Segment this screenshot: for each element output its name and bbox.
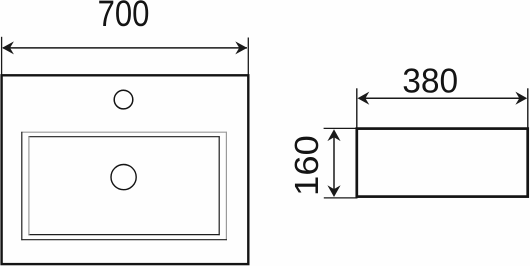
basin side profile rectangle xyxy=(357,129,528,197)
extension line left xyxy=(1,37,3,75)
extension line right xyxy=(247,38,249,76)
dimension text 160 (rotated) xyxy=(295,137,319,194)
dimension text 700 xyxy=(99,0,148,26)
arrowhead 700 right xyxy=(235,41,247,54)
drain hole xyxy=(111,165,136,190)
extension line 380 right xyxy=(527,88,529,128)
faucet hole xyxy=(114,90,133,109)
basin outer outline (top view) xyxy=(2,75,249,264)
arrowhead 160 bottom xyxy=(327,185,340,197)
dimension line 380 xyxy=(359,97,526,99)
arrowhead 380 right xyxy=(515,92,527,105)
dimension text 380 xyxy=(404,68,457,92)
basin rim inner rectangle xyxy=(28,136,219,235)
extension line 160 bottom xyxy=(324,197,358,199)
arrowhead 700 left xyxy=(2,41,14,54)
arrowhead 380 left xyxy=(358,92,370,105)
extension line 160 top xyxy=(324,127,358,129)
dimension line 700 xyxy=(3,47,247,49)
dimension line 160 xyxy=(333,131,335,196)
basin rim outer rectangle xyxy=(21,132,227,240)
extension line 380 left xyxy=(356,88,358,128)
arrowhead 160 top xyxy=(327,129,340,141)
